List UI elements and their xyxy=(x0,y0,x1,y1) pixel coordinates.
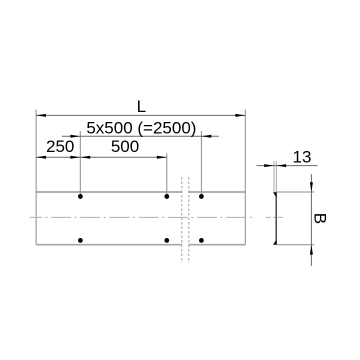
dimension 13: line with outside arrows xyxy=(257,164,318,167)
body top edge (side view, interrupted at break) xyxy=(37,191,246,193)
dimension 5x500 (=2500): label xyxy=(86,119,196,138)
centre line (side view, dash-dot) xyxy=(30,216,252,218)
extension line hole column 2 xyxy=(166,154,168,200)
hole dot bottom row 1 xyxy=(78,238,83,243)
hole dot top row 2 xyxy=(164,194,169,199)
dimension B: extension lines xyxy=(276,192,314,245)
hole dot bottom row 3 xyxy=(199,238,204,243)
svg-text:250: 250 xyxy=(46,137,74,156)
svg-text:500: 500 xyxy=(111,137,139,156)
body bottom edge (side view, interrupted at break) xyxy=(37,244,246,246)
svg-text:L: L xyxy=(137,97,146,116)
svg-text:5x500 (=2500): 5x500 (=2500) xyxy=(86,119,196,138)
break line right (dashed) xyxy=(188,177,190,263)
break line left (dashed) xyxy=(181,177,183,263)
dimension B: label (rotated) xyxy=(311,213,330,224)
extension line hole column 3 xyxy=(200,131,202,199)
svg-text:B: B xyxy=(311,213,330,224)
extension line hole column 1 xyxy=(79,131,81,199)
section centre line (dash-dot) xyxy=(266,216,284,218)
section top hook xyxy=(273,192,277,198)
dimension 5x500 (=2500): line with outside arrows xyxy=(62,135,219,138)
section web (profile seen edge-on) xyxy=(275,192,277,245)
dimension 250: label xyxy=(46,137,74,156)
dimension 13: label xyxy=(293,147,312,166)
dimension 500: label xyxy=(111,137,139,156)
dimension L: line xyxy=(36,114,245,117)
body right edge / extension line for L xyxy=(244,110,246,245)
dimension L: label xyxy=(137,97,146,116)
dimension 500: line xyxy=(80,156,167,159)
hole dot top row 3 xyxy=(199,194,204,199)
dimension B: line with outside arrows xyxy=(310,174,313,266)
section extension lines for 13 xyxy=(274,161,276,192)
hole dot top row 1 xyxy=(78,194,83,199)
body left edge / extension line for L and 250 xyxy=(35,110,37,245)
dimension 250: line xyxy=(36,156,80,159)
hole dot bottom row 2 xyxy=(164,238,169,243)
svg-text:13: 13 xyxy=(293,147,312,166)
section bottom hook xyxy=(273,239,277,245)
